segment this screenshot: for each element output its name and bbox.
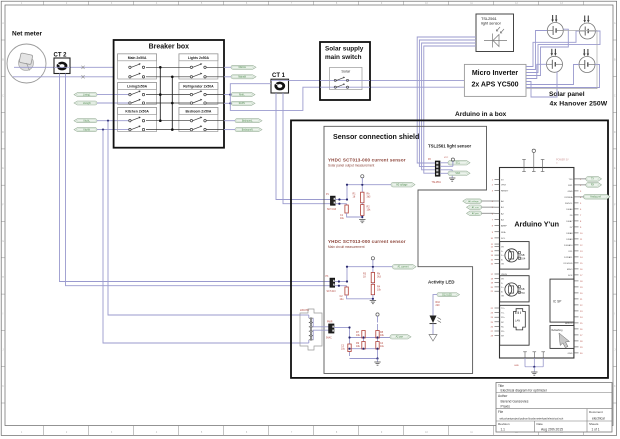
svg-text:Net meter: Net meter (12, 31, 42, 38)
svg-text:D13 LED: D13 LED (442, 293, 452, 296)
svg-text:SCK: SCK (568, 275, 573, 277)
svg-text:BedroomN: BedroomN (242, 128, 253, 131)
svg-text:D-: D- (501, 283, 503, 285)
svg-text:RefrN: RefrN (239, 102, 245, 105)
svg-text:AREF: AREF (501, 225, 507, 228)
svg-text:D3/SCL: D3/SCL (565, 203, 573, 205)
svg-text:A0 voltage: A0 voltage (468, 200, 479, 203)
svg-text:Solar: Solar (341, 70, 351, 74)
svg-text:LAN: LAN (515, 319, 520, 323)
svg-text:Aug 29th 2015: Aug 29th 2015 (541, 428, 563, 432)
svg-text:Electrical diagram for optimiz: Electrical diagram for optimizer (501, 389, 548, 393)
svg-text:Sensor connection shield: Sensor connection shield (333, 133, 419, 141)
svg-text:Prog: Prog (519, 291, 525, 295)
svg-text:Praxis: Praxis (501, 404, 511, 408)
svg-text:CT 1: CT 1 (272, 73, 286, 79)
svg-text:Main 2x50A: Main 2x50A (128, 56, 147, 60)
svg-text:Title: Title (498, 384, 504, 388)
svg-text:GND: GND (568, 353, 573, 355)
svg-text:NC: NC (501, 322, 505, 324)
svg-text:G: G (614, 240, 616, 243)
svg-text:RX-: RX- (501, 331, 505, 333)
svg-text:1 of 1: 1 of 1 (592, 428, 600, 432)
svg-text:Sheets: Sheets (589, 422, 599, 426)
svg-text:BedroomL: BedroomL (242, 120, 253, 123)
svg-text:PWR: PWR (327, 322, 333, 324)
svg-text:10u: 10u (380, 345, 385, 348)
svg-text:3k3: 3k3 (367, 195, 372, 198)
svg-text:10u: 10u (340, 298, 345, 301)
svg-text:2x APS YC500: 2x APS YC500 (471, 82, 518, 89)
svg-text:D9/A9: D9/A9 (566, 238, 573, 241)
svg-text:Living2x50A: Living2x50A (127, 85, 148, 89)
svg-text:KitchN: KitchN (83, 128, 90, 131)
svg-text:D4/A6: D4/A6 (566, 208, 573, 211)
svg-text:4x Hanover 250W: 4x Hanover 250W (550, 100, 608, 107)
svg-text:Date: Date (537, 422, 544, 426)
svg-text:D13/LED: D13/LED (564, 263, 573, 265)
svg-text:LivingN: LivingN (83, 103, 91, 105)
svg-text:SDA: SDA (501, 231, 506, 234)
svg-text:220: 220 (436, 304, 441, 307)
svg-text:Arduino in a box: Arduino in a box (455, 111, 507, 118)
svg-text:D-: D- (501, 251, 503, 253)
svg-text:RX: RX (591, 185, 595, 187)
svg-text:RESET: RESET (501, 190, 509, 192)
svg-text:GND: GND (514, 365, 519, 367)
svg-text:KitchL: KitchL (84, 120, 91, 123)
svg-text:D: D (2, 131, 4, 134)
svg-text:main switch: main switch (325, 54, 362, 61)
svg-text:H: H (2, 276, 4, 279)
svg-text:Reflashing: Reflashing (552, 330, 564, 332)
svg-text:TX-: TX- (501, 313, 505, 315)
svg-text:RefrL: RefrL (239, 93, 245, 96)
svg-text:10u: 10u (341, 348, 346, 351)
svg-text:A1 curr: A1 curr (472, 206, 479, 209)
svg-text:VCC: VCC (444, 157, 449, 159)
svg-text:Solar supply: Solar supply (325, 46, 364, 53)
svg-text:D12/A11: D12/A11 (564, 256, 573, 259)
svg-text:H: H (614, 276, 616, 279)
svg-text:A0 voltage: A0 voltage (396, 184, 408, 187)
svg-text:G: G (2, 240, 4, 243)
svg-text:MainsL: MainsL (239, 67, 247, 69)
svg-text:Activity LED: Activity LED (428, 279, 455, 284)
svg-text:1.1: 1.1 (501, 428, 506, 432)
svg-text:Author: Author (498, 394, 508, 398)
svg-text:SCL: SCL (456, 163, 461, 165)
svg-text:D: D (614, 131, 616, 134)
svg-text:D10/A10: D10/A10 (564, 244, 573, 247)
svg-text:USB: USB (519, 287, 525, 291)
svg-text:LivingL: LivingL (83, 94, 91, 96)
svg-text:MainsN: MainsN (238, 77, 246, 79)
svg-text:POWER 5V: POWER 5V (556, 159, 569, 162)
svg-text:electrical: electrical (592, 416, 605, 420)
svg-text:C: C (2, 95, 4, 98)
svg-text:C: C (614, 95, 616, 98)
svg-text:A2 pwr: A2 pwr (472, 212, 479, 215)
svg-text:wilco/saniproject/python/loods: wilco/saniproject/python/loodsmeterkast/… (500, 416, 564, 420)
svg-text:Bedroom 2x50A: Bedroom 2x50A (185, 109, 211, 113)
svg-text:YHDC SCT013-000 current sensor: YHDC SCT013-000 current sensor (328, 239, 406, 244)
svg-text:10u: 10u (340, 217, 345, 220)
svg-text:MISO: MISO (567, 269, 573, 271)
svg-text:Main circuit measurement: Main circuit measurement (328, 245, 365, 249)
svg-text:TX: TX (591, 179, 594, 181)
svg-text:Arduino Y'un: Arduino Y'un (514, 220, 559, 229)
svg-text:NC: NC (501, 326, 505, 328)
svg-text:VINT: VINT (501, 185, 507, 187)
svg-text:SDA: SDA (455, 172, 460, 175)
svg-text:Kitchen 2x50A: Kitchen 2x50A (125, 109, 149, 113)
svg-text:Document: Document (589, 410, 603, 414)
svg-text:32U4: 32U4 (519, 256, 526, 260)
svg-text:Solar panel output measurement: Solar panel output measurement (328, 164, 374, 168)
svg-text:YHDC SCT013-000 current sensor: YHDC SCT013-000 current sensor (328, 158, 406, 163)
svg-text:TSL2561 light sensor: TSL2561 light sensor (428, 144, 472, 149)
svg-text:Micro Inverter: Micro Inverter (472, 70, 519, 77)
svg-text:IC SP: IC SP (553, 300, 561, 304)
svg-text:Breaker box: Breaker box (149, 44, 190, 51)
svg-text:TSL2561: TSL2561 (432, 182, 442, 184)
svg-text:light sensor: light sensor (481, 21, 502, 26)
svg-text:Lights 2x50A: Lights 2x50A (188, 56, 210, 60)
svg-text:A2 pwr: A2 pwr (396, 336, 404, 339)
svg-text:A1 current: A1 current (397, 266, 408, 269)
svg-text:GND: GND (568, 191, 573, 193)
svg-text:Berend Ganzevles: Berend Ganzevles (501, 399, 529, 403)
svg-text:Revision: Revision (498, 422, 510, 426)
svg-text:SCT-013: SCT-013 (327, 209, 337, 211)
svg-text:9VAC: 9VAC (326, 337, 332, 340)
svg-text:File: File (498, 410, 503, 414)
svg-text:SCT-013: SCT-013 (327, 291, 337, 293)
svg-text:D8/A8: D8/A8 (566, 232, 573, 235)
svg-text:Refrigerator 2x50A: Refrigerator 2x50A (183, 85, 214, 89)
svg-text:USB: USB (519, 253, 525, 257)
svg-text:Analog ref: Analog ref (590, 196, 601, 199)
svg-text:3k3: 3k3 (377, 275, 382, 278)
svg-text:SH: SH (501, 336, 504, 338)
svg-text:D2/SDA: D2/SDA (565, 196, 573, 199)
svg-text:D6/A7: D6/A7 (566, 220, 573, 223)
